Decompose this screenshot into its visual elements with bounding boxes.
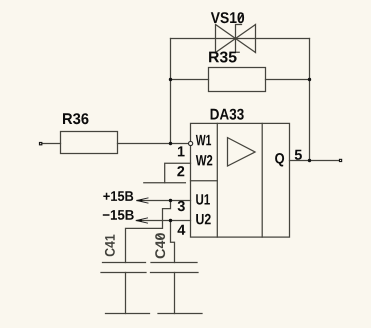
junction: feedback / W1 wire bbox=[169, 142, 172, 145]
op-amp triangle symbol bbox=[228, 138, 256, 166]
label C41 (rotated) bbox=[105, 235, 115, 257]
pin number 4 bbox=[178, 225, 186, 235]
pin number 3 bbox=[178, 201, 185, 211]
label W1 bbox=[196, 135, 211, 145]
wire: top feedback net through VS10 bbox=[171, 38, 310, 40]
label U1 bbox=[196, 194, 210, 204]
IC DA33 outline bbox=[191, 123, 290, 237]
bus stub under C41 bbox=[106, 313, 150, 315]
label DA33 bbox=[211, 109, 244, 120]
arrow: -15V bbox=[136, 218, 148, 223]
wire: right feedback vertical bbox=[309, 39, 311, 161]
DA33 left column divider bbox=[216, 123, 218, 237]
label Q bbox=[275, 153, 284, 167]
wire: left feedback vertical bbox=[170, 39, 172, 144]
wire: R35 right lead bbox=[266, 79, 310, 81]
DA33 W/U section divider bbox=[191, 180, 218, 182]
terminal: input (left open square) bbox=[39, 142, 43, 146]
label R35 bbox=[209, 52, 237, 63]
wire: pin4 to C40 bbox=[171, 221, 175, 263]
wire: input terminal to R36 bbox=[43, 143, 61, 145]
terminal: output (right open square) bbox=[339, 159, 342, 162]
wire: R36 to W1 input bbox=[118, 143, 190, 145]
junction: pin4 / C40 tap bbox=[169, 219, 172, 222]
wire: C41 bottom lead bbox=[125, 273, 127, 314]
bus stub under C40 bbox=[158, 313, 202, 315]
label -15V supply bbox=[103, 210, 134, 220]
junction: left vertical / R35 bbox=[169, 78, 172, 81]
wire: C40 bottom lead bbox=[174, 273, 176, 314]
wire: R35 left lead bbox=[171, 79, 209, 81]
wire: pin 2 stub horizontal bbox=[144, 182, 186, 184]
wire: Q output pin 5 bbox=[290, 160, 340, 162]
inversion circle at W1 pin bbox=[189, 141, 193, 145]
wire: +15V supply to pin 3 bbox=[137, 200, 191, 202]
junction: feedback / pin5 wire bbox=[308, 159, 311, 162]
capacitor C40 bbox=[151, 263, 199, 273]
wire: pin 2 stub from W2 bbox=[165, 163, 191, 182]
DA33 Q column divider bbox=[261, 123, 263, 237]
resistor R36 bbox=[61, 132, 118, 154]
capacitor C41 bbox=[101, 263, 146, 273]
junction: right vertical / R35 bbox=[308, 78, 311, 81]
label R36 bbox=[63, 113, 89, 124]
pin number 1 bbox=[178, 146, 185, 156]
pin number 5 bbox=[295, 150, 302, 160]
label +15V supply bbox=[103, 191, 133, 201]
junction: pin3 / C41 tap bbox=[169, 199, 172, 202]
label W2 bbox=[196, 155, 213, 166]
wire: -15V supply to pin 4 bbox=[136, 220, 190, 222]
arrow: +15V bbox=[137, 198, 149, 203]
resistor R35 bbox=[209, 68, 266, 92]
bidirectional zener VS10 bbox=[216, 25, 256, 53]
wire: staircase pin3 to C41 bbox=[126, 201, 171, 263]
label C40 (rotated) bbox=[155, 233, 165, 258]
label U2 bbox=[196, 214, 211, 225]
label VS10 bbox=[211, 12, 244, 23]
pin number 2 bbox=[177, 166, 184, 176]
